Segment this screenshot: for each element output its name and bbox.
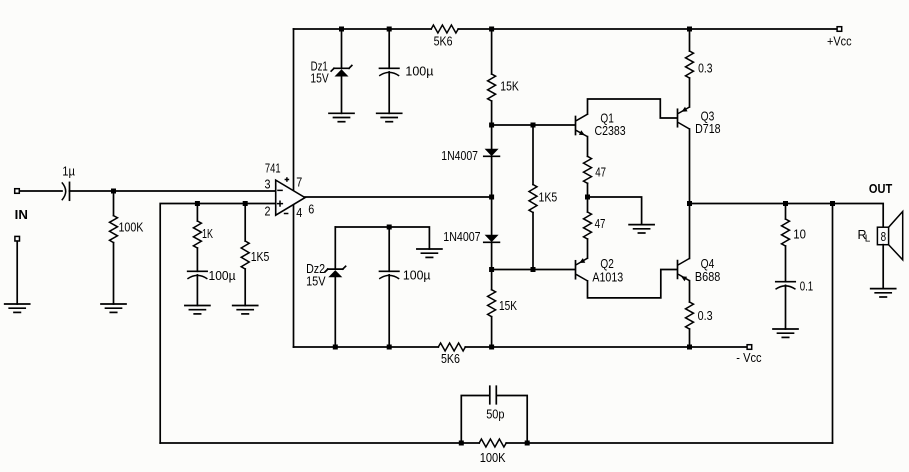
svg-text:1K5: 1K5 bbox=[251, 250, 270, 264]
svg-text:8: 8 bbox=[881, 230, 887, 244]
node 1K5 bias top bbox=[531, 123, 536, 128]
svg-text:100µ: 100µ bbox=[209, 269, 236, 283]
wire IN return to ground bbox=[16, 241, 18, 304]
svg-text:100µ: 100µ bbox=[405, 65, 433, 79]
resistor 5K6 top bbox=[431, 25, 458, 33]
wire +V rail right to +Vcc bbox=[458, 28, 837, 30]
node 0.3 top rail bbox=[687, 27, 692, 32]
svg-text:7: 7 bbox=[296, 175, 302, 189]
node 47 midpoint bbox=[585, 195, 590, 200]
node 15K bottom rail bbox=[489, 345, 494, 350]
capacitor 100u input leg bbox=[188, 270, 207, 272]
node 15K top rail bbox=[489, 27, 494, 32]
wire Q1 collector to Q3 base bbox=[588, 99, 677, 118]
terminal IN return bbox=[15, 236, 20, 241]
capacitor 0.1 zobel bbox=[776, 281, 795, 283]
ground under 100K bbox=[101, 303, 126, 305]
resistor 0.3 top bbox=[689, 29, 691, 51]
svg-text:1K5: 1K5 bbox=[539, 190, 558, 204]
svg-text:1K: 1K bbox=[202, 227, 213, 241]
resistor 100K input bbox=[113, 191, 115, 216]
svg-text:15K: 15K bbox=[499, 299, 518, 313]
resistor 0.3 bottom bbox=[686, 302, 694, 329]
node 100u negative reg top bbox=[387, 225, 392, 230]
svg-text:0.3: 0.3 bbox=[698, 61, 712, 75]
svg-text:+Vcc: +Vcc bbox=[827, 34, 852, 48]
resistor 10 zobel bbox=[785, 204, 787, 220]
svg-text:1N4007: 1N4007 bbox=[443, 230, 480, 244]
resistor 15K bottom bbox=[491, 270, 493, 290]
terminal -Vcc bbox=[747, 345, 752, 350]
wire feedback right vertical bbox=[832, 204, 834, 444]
svg-text:D718: D718 bbox=[695, 122, 721, 136]
terminal IN bbox=[20, 190, 62, 192]
svg-text:Q3: Q3 bbox=[701, 109, 715, 123]
node 1K5 top bbox=[243, 201, 248, 206]
transistor Q4 B688 bbox=[677, 261, 679, 279]
svg-text:Q2: Q2 bbox=[600, 257, 613, 271]
wire -V rail left bbox=[294, 346, 439, 348]
wire speaker to ground bbox=[882, 245, 884, 289]
node bias top bbox=[489, 123, 494, 128]
wire Q4 emitter bbox=[689, 281, 691, 302]
ground Dz2 stub bbox=[417, 248, 442, 250]
diode D2 1N4007 bbox=[491, 197, 493, 235]
ground under 100u bbox=[185, 305, 210, 307]
svg-text:IN: IN bbox=[15, 208, 28, 222]
node 100u negative rail bbox=[387, 345, 392, 350]
wire Q1 emitter bbox=[587, 137, 589, 157]
wire 100u to ground bbox=[196, 275, 198, 306]
resistor 1K5 bias bbox=[532, 125, 534, 185]
transistor Q2 A1013 bbox=[575, 261, 577, 279]
resistor 100K feedback bbox=[479, 439, 506, 447]
wire -V rail right to -Vcc bbox=[465, 346, 747, 348]
wire Q3 collector to output node bbox=[689, 129, 691, 204]
node bias bottom bbox=[489, 267, 494, 272]
resistor 47 upper bbox=[584, 156, 592, 183]
ground under 100u positive reg bbox=[377, 112, 402, 114]
capacitor 50p bbox=[490, 386, 497, 404]
svg-text:5K6: 5K6 bbox=[441, 352, 460, 366]
zener Dz2 bbox=[334, 227, 336, 269]
wire output line bbox=[690, 204, 884, 228]
resistor 5K6 bottom bbox=[438, 343, 465, 351]
svg-text:OUT: OUT bbox=[869, 182, 893, 196]
svg-text:0.1: 0.1 bbox=[800, 280, 814, 294]
resistor 15K top bbox=[491, 29, 493, 74]
node 50p right bbox=[525, 441, 530, 446]
svg-text:5K6: 5K6 bbox=[434, 35, 453, 49]
node output Q3/Q4 bbox=[687, 201, 692, 206]
svg-text:100K: 100K bbox=[480, 451, 506, 465]
resistor 1K bbox=[196, 204, 198, 222]
transistor Q3 D718 bbox=[677, 109, 679, 126]
wire feedback bottom left bbox=[160, 442, 479, 444]
node op-amp output junction bbox=[489, 195, 494, 200]
node 50p left bbox=[459, 441, 464, 446]
ground under 0.1 bbox=[773, 328, 798, 330]
wire op-amp pin2 to feedback corner bbox=[160, 204, 276, 444]
svg-text:4: 4 bbox=[296, 206, 302, 220]
wire 0.1 to ground bbox=[785, 285, 787, 329]
svg-text:15V: 15V bbox=[306, 275, 326, 289]
node feedback takeoff bbox=[830, 201, 835, 206]
svg-text:3: 3 bbox=[265, 177, 271, 191]
node 0.3 bottom rail bbox=[687, 345, 692, 350]
svg-text:B688: B688 bbox=[695, 270, 720, 284]
svg-text:741: 741 bbox=[265, 161, 281, 175]
svg-text:6: 6 bbox=[308, 202, 314, 216]
node zobel top bbox=[783, 201, 788, 206]
node Dz2 rail bbox=[333, 345, 338, 350]
speaker RL bbox=[877, 227, 888, 245]
op-amp U1 741 bbox=[276, 180, 305, 215]
wire op-amp pin4 supply bbox=[293, 205, 295, 347]
ground under Dz1 bbox=[329, 112, 354, 114]
ground IN return bbox=[5, 303, 30, 305]
svg-text:10: 10 bbox=[793, 228, 806, 242]
svg-text:- Vcc: - Vcc bbox=[736, 351, 761, 365]
svg-text:47: 47 bbox=[595, 166, 606, 180]
wire bias top to Q1 base bbox=[492, 124, 575, 126]
ground under 1K5 bbox=[233, 305, 258, 307]
wire Dz2 top line bbox=[335, 227, 429, 249]
wire 50p loop bbox=[461, 396, 527, 444]
svg-text:C2383: C2383 bbox=[595, 124, 626, 138]
wire bias bottom to Q2 base bbox=[492, 269, 575, 271]
capacitor 100u negative reg bbox=[388, 227, 390, 271]
svg-text:A1013: A1013 bbox=[592, 270, 623, 284]
ground under speaker bbox=[871, 288, 896, 290]
node Dz1 rail bbox=[339, 27, 344, 32]
node 100u rail bbox=[387, 27, 392, 32]
svg-text:Q4: Q4 bbox=[701, 257, 715, 271]
wire input to op-amp pin3 bbox=[70, 190, 276, 192]
ground midpoint stub bbox=[629, 224, 654, 226]
wire +V rail left bbox=[294, 28, 432, 30]
terminal +Vcc bbox=[837, 27, 842, 32]
svg-text:100µ: 100µ bbox=[403, 269, 431, 283]
svg-text:15V: 15V bbox=[310, 72, 329, 86]
node 1K top bbox=[195, 201, 200, 206]
svg-text:2: 2 bbox=[265, 204, 271, 218]
svg-text:0.3: 0.3 bbox=[698, 309, 713, 323]
wire op-amp output bbox=[305, 196, 492, 198]
svg-text:1µ: 1µ bbox=[62, 164, 75, 178]
wire midpoint to ground stub bbox=[588, 197, 642, 225]
wire Q2 collector to Q4 base bbox=[588, 270, 677, 298]
transistor Q1 C2383 bbox=[575, 117, 577, 135]
svg-text:47: 47 bbox=[595, 217, 606, 231]
svg-text:100K: 100K bbox=[119, 221, 144, 235]
node 1K5 bias bottom bbox=[531, 267, 536, 272]
svg-text:L: L bbox=[865, 234, 871, 245]
capacitor 100u positive reg bbox=[388, 29, 390, 68]
node input/100K junction bbox=[111, 189, 116, 194]
wire feedback bottom right bbox=[506, 442, 832, 444]
diode D1 1N4007 bbox=[491, 125, 493, 149]
svg-text:50p: 50p bbox=[486, 408, 504, 422]
resistor 47 lower bbox=[587, 197, 589, 212]
capacitor 1u input bbox=[62, 182, 66, 200]
svg-text:15K: 15K bbox=[500, 80, 519, 94]
wire op-amp pin7 supply bbox=[293, 29, 295, 191]
svg-text:1N4007: 1N4007 bbox=[441, 149, 478, 163]
resistor 1K5 input bbox=[244, 204, 246, 242]
zener Dz1 bbox=[341, 29, 343, 68]
